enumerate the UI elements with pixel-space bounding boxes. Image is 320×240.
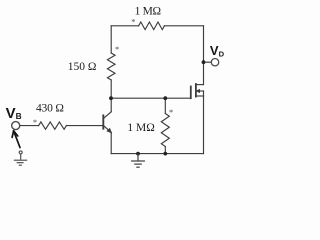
svg-text:VB: VB (6, 105, 22, 122)
svg-text:*: * (115, 44, 119, 54)
wire gate rail left segment (111, 97, 165, 99)
node junction dot R3 bottom (163, 152, 167, 156)
svg-text:150 Ω: 150 Ω (68, 61, 97, 73)
wire below R3 (164, 147, 166, 154)
ground (left, below VB) (14, 151, 27, 165)
pin marker asterisk R1 (131, 17, 135, 27)
annotation arrow pointing to VB (12, 131, 20, 148)
wire top rail right segment (164, 25, 203, 27)
pin marker asterisk R2 (115, 44, 119, 54)
resistor R1 zigzag (139, 22, 165, 30)
node label VD (210, 43, 225, 58)
node junction dot drain VD (202, 60, 206, 64)
wire VD stub (204, 61, 212, 63)
value label 1 Mohm (top) (135, 5, 161, 17)
svg-text:430 Ω: 430 Ω (36, 103, 64, 115)
svg-text:VD: VD (210, 43, 225, 58)
value label 1 Mohm (center) (127, 122, 154, 134)
transistor Q1 (NPN BJT) (103, 98, 111, 153)
wire bottom rail (111, 153, 203, 155)
node junction dot left (collector node) (109, 96, 113, 100)
value label 430 ohm (36, 103, 64, 115)
wire source vertical (203, 96, 205, 154)
terminal VD circle (211, 59, 218, 66)
wire left vertical above R2 (110, 26, 112, 53)
svg-text:*: * (169, 107, 173, 117)
svg-text:1 MΩ: 1 MΩ (127, 122, 154, 134)
wire VB to R4 (20, 125, 39, 127)
wire top rail left segment (111, 25, 138, 27)
wire above R3 (164, 98, 166, 113)
ground (center, below rail) (131, 154, 145, 168)
svg-text:*: * (131, 17, 135, 27)
node junction dot R3 top (163, 96, 167, 100)
value label 150 ohm (68, 61, 97, 73)
resistor R2 zigzag (150 ohm) (107, 53, 115, 80)
wire R4 to base (66, 125, 102, 127)
wire left vertical below R2 (110, 80, 112, 98)
pin marker asterisk R3 (169, 107, 173, 117)
wire right vertical (top to drain node) (203, 26, 205, 62)
pin marker asterisk R4 (33, 117, 37, 127)
transistor Q2 (NMOS) (191, 62, 204, 98)
terminal VB circle (12, 122, 20, 130)
node label VB (6, 105, 22, 122)
svg-text:*: * (33, 117, 37, 127)
node junction dot ground tap (136, 152, 140, 156)
resistor R3 zigzag (1 Mohm vertical) (161, 114, 169, 147)
wire gate rail right segment (165, 97, 190, 99)
resistor R4 zigzag (430 ohm) (39, 122, 67, 129)
svg-text:1 MΩ: 1 MΩ (135, 5, 161, 17)
